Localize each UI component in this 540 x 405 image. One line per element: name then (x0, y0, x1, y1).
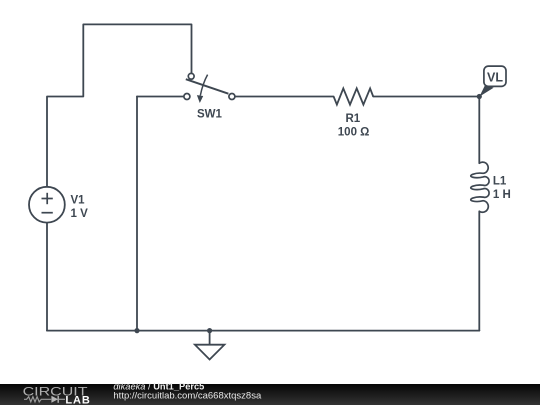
wire middle vertical down to bottom rail (136, 97, 138, 331)
svg-text:100 Ω: 100 Ω (338, 127, 370, 139)
wire resistor R1 to node VL (373, 96, 479, 98)
wire node VL down to inductor L1 (478, 97, 480, 164)
wire V1 bottom to bottom rail (46, 223, 48, 331)
svg-text:LAB: LAB (65, 395, 90, 405)
svg-text:SW1: SW1 (197, 109, 223, 121)
svg-text:1 V: 1 V (71, 208, 89, 220)
svg-text:L1: L1 (493, 175, 507, 187)
node VL flag (479, 66, 506, 97)
wire switch left terminal to middle vertical (137, 96, 184, 98)
wire switch right terminal to resistor R1 (235, 96, 334, 98)
svg-text:1 H: 1 H (493, 189, 511, 201)
ground (195, 331, 225, 360)
svg-text:R1: R1 (345, 113, 360, 125)
junction node VL (477, 94, 482, 99)
voltage source V1 (29, 187, 65, 223)
footer bar (0, 384, 540, 405)
svg-text:VL: VL (487, 70, 503, 84)
CircuitLab logo wordmark (23, 384, 91, 405)
wire bottom rail (47, 330, 479, 332)
junction middle vertical / bottom rail (134, 328, 139, 333)
resistor R1 (334, 88, 374, 104)
wire inductor L1 to bottom rail (478, 211, 480, 330)
svg-text:V1: V1 (71, 194, 86, 206)
inductor L1 (471, 162, 489, 212)
wire V1 top to switch top terminal (47, 24, 192, 186)
junction ground / bottom rail (207, 328, 212, 333)
switch SW1 (184, 73, 235, 103)
svg-text:http://circuitlab.com/ca668xtq: http://circuitlab.com/ca668xtqsz8sa (113, 390, 262, 401)
